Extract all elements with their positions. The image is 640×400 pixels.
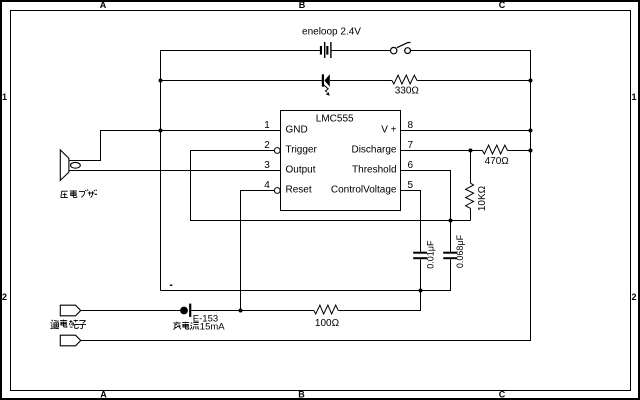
- svg-text:Output: Output: [286, 165, 316, 176]
- piezo buzzer 圧電ブザー: [60, 150, 80, 181]
- junction Reset / E-153 line: [239, 309, 243, 313]
- wire riser 100 ohm line to GND rail: [420, 290, 422, 311]
- wire buzzer riser: [100, 130, 102, 161]
- wire GND rail vertical: [160, 50, 162, 291]
- wire ControlVoltage pin 5 stub: [401, 190, 421, 192]
- wire E-153 to resistor 100: [191, 310, 314, 312]
- svg-text:5: 5: [408, 180, 414, 191]
- op-amp / timer IC U1 LMC555 box: [281, 111, 401, 211]
- wire LED anode to resistor 330: [330, 80, 392, 82]
- wire Reset riser down to E-153 node: [240, 190, 242, 311]
- svg-text:0.068μF: 0.068μF: [455, 234, 465, 268]
- resistor 330Ω: [392, 75, 417, 84]
- svg-text:C: C: [499, 390, 506, 400]
- svg-text:Reset: Reset: [286, 185, 312, 196]
- wire GND rail to LED cathode: [161, 80, 322, 82]
- wire Discharge pin 7 to resistor 470: [401, 150, 483, 152]
- junction GND rail / LED branch: [159, 79, 163, 83]
- wire resistor 10K bottom lead: [470, 208, 472, 220]
- wire terminal 2 to V+ rail (bottom): [81, 340, 531, 342]
- wire resistor 10K top lead: [470, 150, 472, 183]
- svg-text:2: 2: [2, 292, 7, 302]
- svg-text:A: A: [100, 0, 107, 10]
- svg-text:V +: V +: [381, 125, 396, 136]
- svg-text:330Ω: 330Ω: [395, 85, 420, 96]
- capacitor 0.01μF: [413, 253, 427, 259]
- wire resistor 470 to V+ rail: [508, 150, 531, 152]
- svg-text:Discharge: Discharge: [351, 145, 396, 156]
- switch S1: [391, 43, 411, 54]
- wire GND pin 1: [101, 130, 281, 132]
- junction V+ rail / pin 8: [529, 129, 533, 133]
- svg-text:470Ω: 470Ω: [485, 156, 510, 167]
- battery minus label: [170, 284, 173, 286]
- terminal 1 (通電端子): [60, 305, 80, 316]
- wire resistor 100 to riser: [338, 310, 420, 312]
- svg-text:B: B: [299, 0, 306, 10]
- wire 10K bottom to node: [451, 220, 471, 222]
- svg-text:15mA: 15mA: [200, 322, 225, 333]
- constant current diode E-153: [180, 304, 191, 317]
- junction Discharge / 10K top: [469, 149, 473, 153]
- svg-text:7: 7: [408, 140, 414, 151]
- junction V+ rail / 470 branch: [529, 149, 533, 153]
- terminal label 通電端子 (drawn glyphs): [51, 320, 87, 329]
- wire resistor 330 to V+ rail: [417, 80, 531, 82]
- wire node to capacitor 0.068: [450, 221, 452, 252]
- battery BT1 eneloop 2.4V: [320, 42, 332, 58]
- svg-text:eneloop 2.4V: eneloop 2.4V: [302, 26, 361, 37]
- svg-text:8: 8: [408, 120, 414, 131]
- svg-text:B: B: [298, 390, 305, 400]
- svg-text:2: 2: [264, 140, 270, 151]
- svg-text:0.01μF: 0.01μF: [426, 240, 436, 269]
- junction Trigger-Threshold node: [449, 219, 453, 223]
- terminal 2 (通電端子): [60, 335, 80, 346]
- svg-text:1: 1: [264, 120, 270, 131]
- wire capacitor 0.01 bottom lead: [420, 259, 422, 291]
- junction GND rail / capacitor bottoms: [419, 289, 423, 293]
- wire terminal 1 to E-153: [81, 310, 181, 312]
- svg-text:1: 1: [2, 92, 7, 102]
- svg-text:2: 2: [631, 292, 636, 302]
- wire GND rail bottom horizontal: [161, 290, 421, 292]
- wire capacitor 0.068 bottom to GND rail: [421, 290, 451, 292]
- wire battery positive to switch: [332, 50, 391, 52]
- svg-text:6: 6: [408, 160, 414, 171]
- wire V+ pin 8 to rail: [401, 130, 531, 132]
- wire capacitor 0.068 bottom lead: [450, 259, 452, 291]
- pin 4 Reset (inverting bubble): [274, 188, 280, 194]
- wire V+ rail vertical: [530, 50, 532, 341]
- svg-text:ControlVoltage: ControlVoltage: [331, 185, 397, 196]
- svg-text:C: C: [499, 0, 506, 10]
- resistor 10KΩ: [466, 183, 474, 208]
- wire switch to V+ rail: [411, 50, 531, 52]
- pin 2 Trigger (inverting bubble): [274, 148, 280, 154]
- wire pin 5 to capacitor 0.01: [420, 190, 422, 252]
- svg-text:Threshold: Threshold: [352, 165, 396, 176]
- wire Trigger pin 2 stub: [191, 150, 275, 152]
- wire Threshold pin 6 stub: [401, 170, 451, 172]
- svg-text:Trigger: Trigger: [286, 145, 318, 156]
- wire Reset pin 4 stub: [241, 190, 275, 192]
- svg-text:100Ω: 100Ω: [315, 318, 340, 329]
- wire buzzer bottom terminal to Output pin 3: [69, 170, 281, 172]
- buzzer label 圧電ブザ- (drawn glyphs): [61, 190, 97, 198]
- wire buzzer top terminal: [69, 160, 101, 162]
- junction V+ rail / 330 branch: [529, 79, 533, 83]
- junction GND rail / pin 1: [159, 129, 163, 133]
- wire Trigger to Threshold node: [191, 220, 451, 222]
- resistor 100Ω: [314, 305, 338, 314]
- diode label 定電流15mA (drawn glyphs + text): [173, 322, 199, 330]
- svg-text:LMC555: LMC555: [316, 114, 354, 125]
- svg-text:3: 3: [264, 160, 270, 171]
- capacitor 0.068μF: [443, 253, 457, 259]
- wire Trigger riser down: [190, 150, 192, 221]
- wire battery negative to GND rail (top): [161, 50, 321, 52]
- resistor 470Ω: [483, 145, 508, 154]
- svg-text:4: 4: [264, 180, 270, 191]
- wire Threshold riser down: [450, 170, 452, 221]
- LED D1: [322, 74, 330, 96]
- svg-text:1: 1: [631, 92, 636, 102]
- svg-text:10KΩ: 10KΩ: [477, 185, 488, 211]
- svg-text:GND: GND: [286, 125, 308, 136]
- svg-text:A: A: [100, 390, 107, 400]
